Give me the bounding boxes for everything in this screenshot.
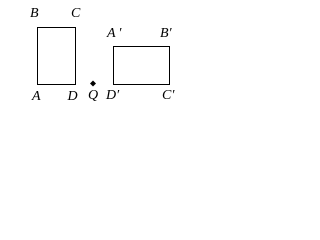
rectangle ABCD (pre-image) — [37, 27, 76, 85]
label C' — [162, 89, 174, 103]
label C — [71, 7, 80, 21]
label B' — [160, 27, 172, 41]
label Q — [88, 89, 98, 103]
label A — [32, 90, 41, 104]
label B — [30, 7, 39, 21]
label A' — [107, 27, 121, 41]
label D' — [106, 89, 119, 103]
label D — [68, 90, 78, 104]
point Q (diamond marker) — [88, 79, 98, 89]
rectangle A'B'C'D' (image) — [113, 46, 170, 85]
